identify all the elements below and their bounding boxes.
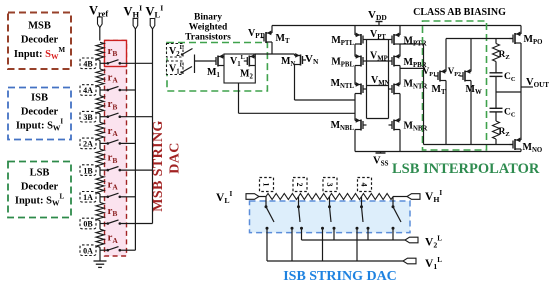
ISB switch 3	[330, 207, 332, 222]
MT wires	[271, 26, 273, 34]
ISB control dashed box 1	[260, 178, 274, 192]
switch box V2L	[167, 44, 184, 58]
switch 3B	[100, 116, 108, 118]
transistor MNBR	[394, 120, 400, 122]
VPT gate wire	[367, 39, 389, 41]
V2L rail	[302, 239, 406, 241]
switch 0A	[100, 249, 108, 251]
ISB contact to V2 rail	[333, 227, 336, 230]
switch output bar	[194, 55, 196, 74]
V1L rail	[267, 260, 403, 262]
ISB contact to V2 rail	[300, 227, 303, 230]
ISB tap wire 4	[361, 197, 363, 207]
transistor MPTR	[394, 34, 400, 36]
MN wires	[294, 54, 296, 56]
switch box 1A	[80, 192, 96, 203]
ISB contact to V2 rail	[367, 227, 370, 230]
ISB chain wire left	[259, 196, 266, 198]
svg-text:3: 3	[325, 183, 334, 187]
transistor MNTL	[355, 84, 361, 86]
ISB resistor 2	[299, 194, 330, 200]
VH bus wire	[134, 29, 136, 250]
VMP gate wire	[367, 60, 389, 62]
left column wire segments	[354, 26, 356, 36]
svg-text:ISB: ISB	[31, 93, 48, 104]
svg-text:MSB: MSB	[28, 21, 51, 32]
svg-text:1A: 1A	[83, 193, 93, 202]
svg-text:2: 2	[295, 183, 304, 187]
ground	[99, 258, 101, 261]
ISB contact to V1 rail	[291, 227, 294, 230]
binary weighted transistors dashed box	[167, 43, 267, 92]
tap wire 2A	[120, 142, 136, 144]
resistor rA cell 2A	[96, 122, 104, 140]
ISB control dashed box 4	[358, 178, 372, 192]
tap wire 4B	[120, 62, 153, 64]
ISB contact to V2 rail	[392, 227, 395, 230]
svg-text:Transistors: Transistors	[185, 33, 231, 43]
svg-text:DAC: DAC	[168, 142, 183, 174]
ISB contact to V1 rail	[356, 227, 359, 230]
unit cell highlight box	[105, 40, 127, 66]
switch box 1B	[80, 165, 96, 176]
wire Vref to string	[99, 28, 101, 41]
svg-text:3B: 3B	[83, 113, 93, 122]
transistor MPTL	[355, 34, 361, 36]
ISB contact to V1 rail	[321, 227, 324, 230]
ISB tap wire 2	[298, 197, 300, 207]
svg-text:Weighted: Weighted	[189, 23, 228, 33]
class AB left bias wire	[423, 44, 425, 145]
svg-text:0B: 0B	[83, 220, 93, 229]
ISB switch dashed box	[250, 201, 411, 233]
ISB switch 4	[362, 207, 364, 222]
svg-text:Binary: Binary	[194, 13, 222, 23]
switch box 0A	[80, 245, 96, 256]
VL bus wire	[152, 29, 154, 224]
capacitor CC bottom	[495, 92, 497, 108]
ISB resistor 1	[266, 194, 299, 200]
resistor rB cell 1B	[96, 149, 104, 167]
svg-text:Input: SWM: Input: SWM	[14, 46, 66, 61]
transistor MNBL	[355, 120, 361, 122]
transistor MPO	[515, 33, 521, 35]
transistor M2	[249, 56, 255, 58]
tap wire 0B	[120, 223, 153, 225]
capacitor CC top	[495, 62, 497, 73]
svg-text:2A: 2A	[83, 140, 93, 149]
ISB control dashed box 3	[323, 178, 337, 192]
resistor rA cell 0A	[96, 229, 104, 247]
ISB tap wire 5	[392, 197, 394, 207]
resistor RZ bottom	[495, 112, 497, 121]
class AB bottom gate wire	[424, 144, 513, 146]
switch box 3B	[80, 111, 96, 122]
M1-M2 source/drain rectangle	[224, 54, 255, 83]
wire to M1 gate	[195, 60, 213, 62]
switch 4A	[100, 89, 108, 91]
svg-text:4B: 4B	[83, 60, 93, 69]
svg-text:LSB: LSB	[30, 168, 50, 179]
VDD rail	[272, 25, 521, 27]
MSB decoder block	[8, 13, 71, 70]
transistor MPBR	[394, 56, 400, 58]
MSB string dashed box (pink filled)	[105, 40, 127, 256]
transistor MPBL	[355, 56, 361, 58]
resistor RZ top	[493, 44, 500, 62]
transistor MT interpolator input	[266, 32, 272, 34]
ISB resistor 3	[330, 194, 362, 200]
stub from MPBR	[400, 67, 424, 69]
resistor rB cell 3B	[96, 96, 104, 114]
svg-text:4: 4	[360, 183, 369, 187]
binary output wire down	[238, 83, 240, 113]
svg-text:Decoder: Decoder	[21, 182, 59, 193]
class AB top gate wire	[446, 38, 513, 40]
Vout node wire	[496, 91, 521, 93]
VMN gate wire	[367, 85, 389, 87]
svg-text:LSB INTERPOLATOR: LSB INTERPOLATOR	[392, 161, 540, 177]
transistor MNO	[515, 139, 521, 141]
switch box 2A	[80, 138, 96, 149]
svg-text:0A: 0A	[83, 246, 93, 255]
transistor MT class AB	[445, 39, 447, 72]
switch box 4B	[80, 58, 96, 69]
switch 4B	[100, 62, 108, 64]
switch 1A	[100, 196, 108, 198]
LSB decoder block	[8, 162, 71, 218]
tap wire 0A	[120, 249, 136, 251]
ISB contact to V1 rail	[266, 227, 269, 230]
ISB resistor 4	[362, 194, 394, 200]
transistor M1	[218, 56, 224, 58]
ISB switch 1	[266, 207, 274, 222]
transistor MW class AB	[470, 39, 472, 72]
switch V2L	[181, 53, 183, 55]
ISB decoder block	[8, 88, 71, 140]
resistor rB cell 4B	[96, 42, 104, 60]
tap wire 1B	[120, 169, 153, 171]
VHI terminal ISB	[407, 194, 420, 200]
svg-text:CLASS AB BIASING: CLASS AB BIASING	[413, 7, 506, 18]
svg-text:1B: 1B	[83, 166, 93, 175]
switch box 4A	[80, 85, 96, 96]
svg-text:Decoder: Decoder	[21, 107, 59, 118]
switch box 0B	[80, 218, 96, 229]
switch V1L	[180, 71, 182, 73]
right column wire segments	[399, 26, 401, 36]
svg-text:1: 1	[262, 183, 271, 187]
VSS supply symbol	[380, 152, 382, 154]
switch box V1L	[167, 61, 184, 75]
resistor rA cell 1A	[96, 176, 104, 194]
resistor rA cell 4A	[96, 69, 104, 87]
switch 1B	[100, 169, 108, 171]
resistor rB cell 0B	[96, 203, 104, 221]
wire top node to MN	[255, 53, 294, 55]
ISB switch 2	[299, 207, 301, 222]
switch 2A	[100, 142, 108, 144]
svg-text:Decoder: Decoder	[21, 35, 59, 46]
ISB tap wire 3	[329, 197, 331, 207]
ISB chain wire right	[393, 196, 407, 198]
ISB tap wire 1	[265, 197, 267, 207]
NB gate wire	[367, 118, 389, 120]
ISB switch 5	[393, 207, 401, 222]
tap wire 4A	[120, 89, 136, 91]
svg-text:MSB STRING: MSB STRING	[151, 120, 166, 212]
svg-text:ISB STRING DAC: ISB STRING DAC	[283, 269, 397, 284]
transistor MNTR	[394, 84, 400, 86]
transistor MN	[295, 55, 301, 57]
switch 0B	[100, 223, 108, 225]
output vertical wire	[520, 43, 522, 140]
interpolator cross wires	[366, 40, 368, 119]
svg-text:4A: 4A	[83, 86, 93, 95]
class AB dashed box	[423, 21, 487, 150]
stub from MPTR drain	[400, 43, 424, 45]
VSS rail	[355, 151, 521, 153]
tap wire 3B	[120, 116, 153, 118]
tap wire 1A	[120, 196, 136, 198]
compensation branch top wire	[495, 39, 497, 44]
binary output wire to interpolator	[239, 112, 356, 114]
ISB control dashed box 2	[293, 178, 307, 192]
